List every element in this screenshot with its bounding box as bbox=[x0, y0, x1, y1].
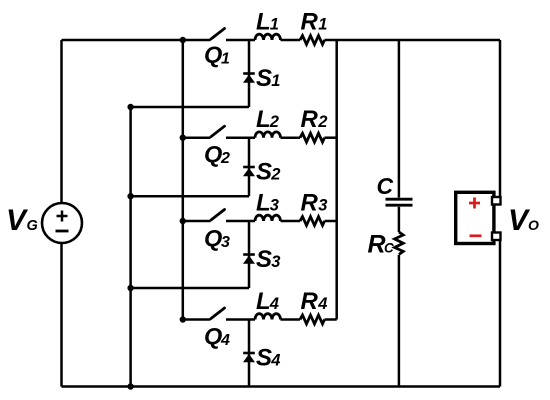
svg-text:4: 4 bbox=[317, 295, 327, 313]
svg-text:G: G bbox=[27, 218, 38, 234]
svg-text:3: 3 bbox=[271, 253, 280, 271]
svg-text:C: C bbox=[377, 173, 394, 199]
svg-text:S: S bbox=[256, 246, 272, 273]
svg-text:L: L bbox=[256, 9, 271, 36]
svg-text:R: R bbox=[301, 9, 319, 36]
svg-text:R: R bbox=[301, 288, 319, 315]
svg-text:L: L bbox=[256, 288, 271, 315]
svg-text:L: L bbox=[256, 190, 271, 217]
svg-text:C: C bbox=[384, 241, 394, 256]
svg-text:2: 2 bbox=[317, 113, 327, 131]
svg-text:Q: Q bbox=[204, 323, 222, 349]
svg-text:1: 1 bbox=[221, 51, 230, 68]
svg-text:O: O bbox=[528, 217, 539, 233]
svg-text:Q: Q bbox=[204, 141, 222, 167]
svg-text:4: 4 bbox=[220, 332, 230, 349]
svg-text:R: R bbox=[301, 106, 319, 133]
svg-text:S: S bbox=[256, 159, 272, 186]
svg-text:R: R bbox=[301, 190, 319, 217]
svg-text:1: 1 bbox=[271, 72, 280, 90]
svg-text:4: 4 bbox=[269, 295, 279, 313]
svg-text:3: 3 bbox=[318, 197, 327, 215]
svg-text:S: S bbox=[256, 65, 272, 92]
svg-text:Q: Q bbox=[204, 42, 222, 68]
svg-text:3: 3 bbox=[221, 234, 230, 251]
svg-text:2: 2 bbox=[220, 150, 230, 167]
svg-text:2: 2 bbox=[269, 113, 279, 131]
svg-text:1: 1 bbox=[270, 16, 279, 34]
svg-text:Q: Q bbox=[204, 225, 222, 251]
svg-text:S: S bbox=[256, 345, 272, 372]
svg-text:4: 4 bbox=[270, 352, 280, 370]
svg-text:1: 1 bbox=[318, 16, 327, 34]
svg-text:R: R bbox=[368, 231, 386, 259]
svg-text:3: 3 bbox=[270, 197, 279, 215]
svg-text:L: L bbox=[256, 106, 271, 133]
svg-text:2: 2 bbox=[270, 166, 280, 184]
